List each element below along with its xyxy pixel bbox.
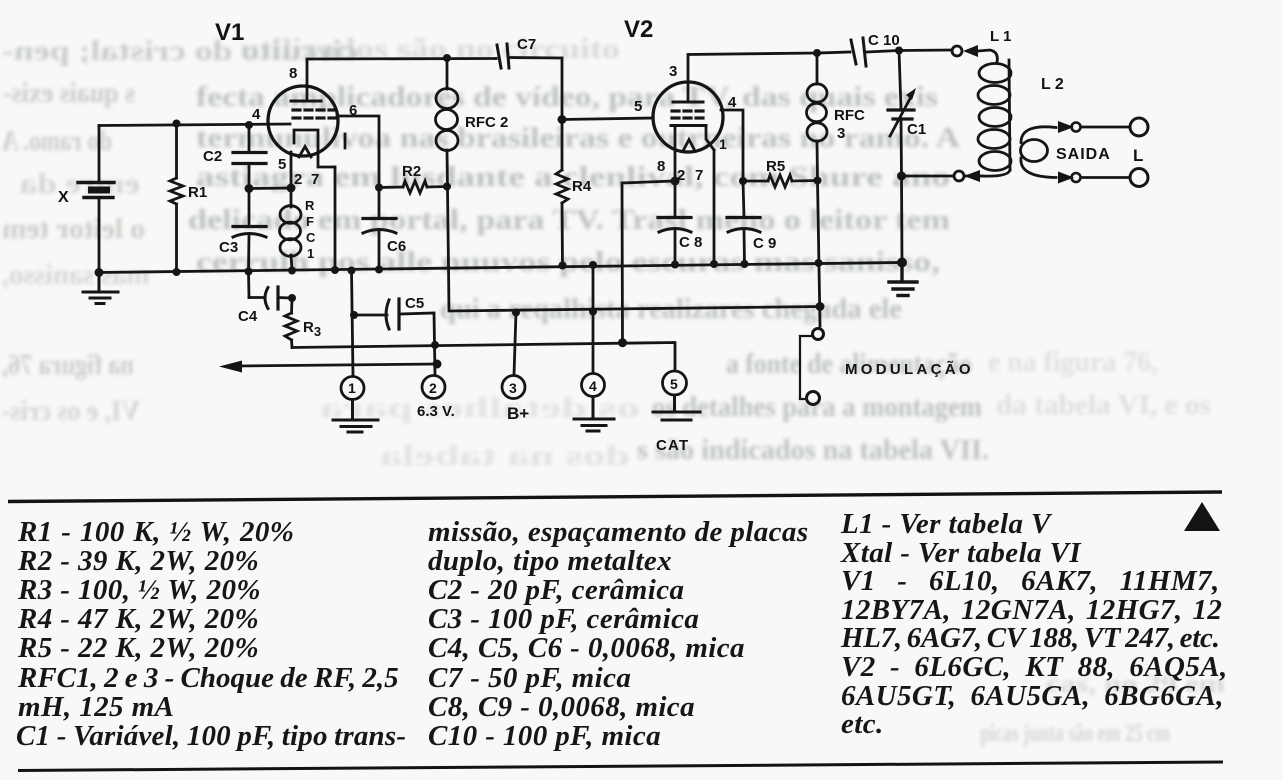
resistor R2 [379,181,447,193]
V2 grid dashes [672,111,703,118]
svg-text:C4, C5, C6 - 0,0068, mica: C4, C5, C6 - 0,0068, mica [428,632,745,664]
capacitor C3 [233,189,266,272]
wire grid node to RFC1 [249,187,291,190]
svg-text:do ramo. A: do ramo. A [2,125,112,157]
svg-text:L1 - Ver tabela V: L1 - Ver tabela V [840,508,1053,540]
capacitor C2 [233,125,266,189]
svg-text:4: 4 [589,378,597,394]
svg-text:R5 - 22 K, 2W, 20%: R5 - 22 K, 2W, 20% [17,632,259,664]
junctions at V1 grid node [245,184,296,194]
V2 pin 3 wire [688,53,817,100]
resistor R3 [285,298,297,348]
svg-text:C: C [306,230,316,245]
svg-text:C1: C1 [907,121,926,138]
terminal 1 circle [341,271,364,400]
cathode return wire to terminal 5 [292,343,675,371]
list bottom rule [18,762,1223,771]
junctions on V1 grid rail [173,120,254,130]
svg-text:V2: V2 [624,16,653,43]
junction at C1 to L1 node [897,172,906,181]
svg-text:C 10: C 10 [868,32,900,49]
variable capacitor C1 [888,51,916,177]
ground below terminal 1 [333,400,378,433]
wire R4 branch [561,58,564,170]
svg-text:6AU5GT, 6AU5GA, 6BG6GA,: 6AU5GT, 6AU5GA, 6BG6GA, [841,680,1224,712]
wire C1 to ground [900,176,903,263]
svg-text:SAIDA: SAIDA [1056,146,1111,163]
ground below terminal 4 [574,397,614,432]
svg-text:C10 - 100 pF, mica: C10 - 100 pF, mica [428,720,661,752]
svg-text:duplo, tipo metaltex: duplo, tipo metaltex [428,545,672,577]
schematic labels [58,16,1143,454]
svg-text:8: 8 [657,158,665,175]
svg-text:os detalhes para a montagem: os detalhes para a montagem [652,391,982,423]
triangle marker [1184,502,1220,531]
svg-text:C8, C9 - 0,0068, mica: C8, C9 - 0,0068, mica [428,691,695,723]
junctions on B+ rail [512,302,825,317]
svg-text:s são indicados na tabela VII.: s são indicados na tabela VII. [637,434,989,466]
V1 cathode [294,130,345,167]
svg-text:2: 2 [294,171,302,188]
svg-text:RFC 2: RFC 2 [465,114,508,131]
ground rail [99,263,902,273]
junctions at V2 cathode and R5 [671,177,822,186]
V2 pin4 wire [721,110,743,181]
svg-text:L 2: L 2 [1041,76,1064,93]
svg-text:CAT: CAT [656,437,689,454]
terminal 2 circle [422,376,445,399]
ground below crystal [83,273,118,304]
svg-text:R5: R5 [766,158,785,175]
ground right [889,263,917,296]
svg-text:delicado em portal, para TV. T: delicado em portal, para TV. Trasl meno … [188,204,950,236]
capacitor C7 [496,44,562,68]
svg-text:dos na tabela: dos na tabela [379,440,630,472]
list column 1 [16,516,406,752]
inductor L2 [1021,127,1057,178]
parts list [8,492,1228,771]
svg-text:R3 - 100, ½ W, 20%: R3 - 100, ½ W, 20% [17,574,261,606]
list column 3 [840,508,1228,740]
svg-text:5: 5 [278,156,286,173]
svg-text:C2: C2 [203,148,222,165]
svg-text:1: 1 [348,380,356,396]
svg-text:C7: C7 [517,36,536,53]
svg-text:da tabela VI, e os: da tabela VI, e os [996,389,1211,421]
svg-text:C6: C6 [387,238,406,255]
svg-text:R1: R1 [188,184,207,201]
svg-text:missão, espaçamento de placas: missão, espaçamento de placas [428,516,809,548]
svg-text:R: R [305,198,315,213]
B+ rail [449,267,821,311]
svg-text:C5: C5 [405,295,424,312]
svg-text:C7 - 50 pF, mica: C7 - 50 pF, mica [428,662,631,694]
svg-text:C 9: C 9 [753,235,776,252]
svg-text:1: 1 [719,136,727,152]
svg-text:R2 - 39 K, 2W, 20%: R2 - 39 K, 2W, 20% [17,545,259,577]
terminal 3 branch [502,313,525,399]
svg-text:3: 3 [837,125,845,142]
svg-text:B+: B+ [507,404,529,423]
RFC3 choke [807,53,828,326]
svg-text:C1 - Variável, 100 pF, tipo tr: C1 - Variável, 100 pF, tipo trans- [16,720,406,752]
L1 bottom terminal [902,170,983,182]
svg-text:7: 7 [695,167,703,184]
tube V2 envelope [653,82,723,152]
resistor R5 [743,175,818,187]
svg-text:V1: V1 [215,19,244,46]
V1 grid dashes [293,110,335,118]
capacitor C8 [658,181,691,265]
svg-text:MODULAÇÃO: MODULAÇÃO [845,360,974,378]
svg-text:V1 - 6L10, 6AK7, 11HM7,: V1 - 6L10, 6AK7, 11HM7, [841,565,1220,597]
svg-text:V2 - 6L6GC, KT 88, 6AQ5A,: V2 - 6L6GC, KT 88, 6AQ5A, [841,651,1228,683]
terminal 5 circle [663,371,687,395]
svg-text:termunulivoa nas brasileiras e: termunulivoa nas brasileiras e outrneira… [196,122,960,154]
svg-text:mas sanisso,: mas sanisso, [2,259,150,291]
svg-text:X: X [58,189,69,206]
capacitor C4 [249,272,293,310]
capacitor C9 [727,181,760,264]
V2 plate [673,101,703,104]
svg-text:R1 - 100 K, ½ W, 20%: R1 - 100 K, ½ W, 20% [17,516,294,548]
svg-text:2: 2 [677,167,685,184]
svg-text:4: 4 [728,94,737,111]
svg-text:6.3 V.: 6.3 V. [417,403,455,420]
heater arrow line [219,361,437,373]
resistor R4 [556,170,568,266]
junctions on ground rail [95,258,908,278]
svg-text:mH, 125 mA: mH, 125 mA [18,691,174,723]
V2 cathode ground wire [622,181,675,343]
svg-text:C2 - 20 pF, cerâmica: C2 - 20 pF, cerâmica [428,574,684,606]
svg-text:HL7, 6AG7, CV 188, VT 247, etc: HL7, 6AG7, CV 188, VT 247, etc. [840,622,1220,654]
capacitor C10 [817,38,899,66]
modulation connector [800,329,824,405]
svg-text:e na figura 76,: e na figura 76, [988,346,1158,378]
RFC2 choke [436,58,459,267]
capacitor C6 [363,188,396,270]
capacitor C5 [354,299,435,375]
svg-text:6: 6 [349,102,357,119]
svg-text:circuito do cristal; pen-: circuito do cristal; pen- [2,35,358,67]
svg-text:3: 3 [509,380,517,396]
V1 pin7 wire [334,167,337,270]
junctions on top wires [443,47,903,125]
svg-text:3: 3 [669,63,677,80]
svg-text:RFC: RFC [834,107,865,124]
saida top lead [1058,118,1148,136]
svg-text:C3: C3 [219,239,238,256]
RFC1 choke [280,188,302,271]
svg-text:4: 4 [252,106,261,123]
terminal 4 branch [582,265,605,397]
inductor L1 [978,60,1011,176]
svg-text:etc.: etc. [841,708,884,740]
svg-text:s quais exis-: s quais exis- [3,77,135,109]
svg-text:R2: R2 [402,163,421,180]
svg-text:5: 5 [670,376,678,392]
junctions at R2 ends [375,183,451,192]
svg-text:o leitor tem: o leitor tem [2,213,145,245]
wire crystal branch [98,126,101,182]
list column 2 [428,516,809,752]
saida bottom lead [1058,169,1148,187]
V1 pin6 wire [337,116,379,188]
svg-text:RFC1, 2 e 3 - Choque de RF, 2,: RFC1, 2 e 3 - Choque de RF, 2,5 [17,662,399,694]
V1 pin 8 wire [307,59,496,101]
svg-text:R4: R4 [572,178,592,195]
svg-text:F: F [306,214,314,229]
V2 pin7 wire [713,150,716,264]
svg-text:C3 - 100 pF, cerâmica: C3 - 100 pF, cerâmica [428,603,699,635]
svg-text:na figura 76,: na figura 76, [2,349,134,381]
svg-text:VI, e os cris-: VI, e os cris- [2,395,140,427]
crystal X [78,183,114,273]
schematic ink [78,38,1148,432]
svg-text:L 1: L 1 [990,28,1011,45]
junctions on cathode and heater lines [288,294,627,369]
tube V1 envelope [268,86,338,156]
svg-text:5: 5 [634,98,642,115]
svg-text:C 8: C 8 [679,234,702,251]
V2 cathode [671,126,714,182]
svg-text:C4: C4 [238,308,258,325]
svg-text:7: 7 [311,171,319,188]
svg-text:1: 1 [307,246,314,261]
svg-text:picas junta são em 25 cm: picas junta são em 25 cm [980,720,1170,747]
wire V2 grid [562,118,653,120]
svg-text:2: 2 [429,380,437,396]
list top rule [8,492,1222,502]
svg-text:R4 - 47 K, 2W, 20%: R4 - 47 K, 2W, 20% [17,603,259,635]
wire top rail V1 grid [99,124,290,126]
resistor R1 [170,124,183,273]
ground below terminal 5 (CAT) [653,395,700,420]
svg-text:L: L [1133,146,1143,165]
V1 plate [291,100,321,103]
L1 top terminal [899,45,997,62]
svg-text:8: 8 [289,65,297,82]
V1 pin2/5 wire [290,152,293,188]
